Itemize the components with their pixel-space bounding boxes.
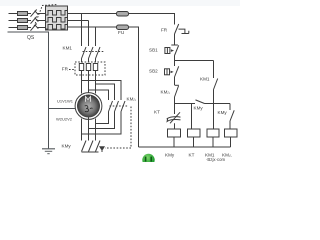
- switch QS pole 3: [31, 24, 46, 31]
- wire node line y103: [175, 103, 196, 105]
- wire KT coil branch: [191, 104, 193, 130]
- svg-text:FR: FR: [161, 28, 168, 33]
- coil KMd: [225, 129, 238, 147]
- svg-text:KM△: KM△: [127, 97, 137, 102]
- contact KMy NO right branch: [230, 104, 234, 130]
- wire delta bottoms: [96, 112, 109, 124]
- svg-text:SB1: SB1: [149, 48, 158, 53]
- contact KM1 aux NO: [214, 61, 218, 130]
- contactor KMd main contacts: [109, 101, 126, 112]
- wire delta top tap W1: [96, 84, 115, 100]
- contact KMd NC interlock: [175, 85, 180, 103]
- wire bottom control rail: [139, 146, 231, 148]
- wire motor bottom drops: [81, 119, 83, 141]
- svg-text:KMy: KMy: [194, 106, 204, 111]
- wire L2: [68, 20, 89, 22]
- wire phase drops to KM1: [81, 14, 83, 47]
- label motor M text: [85, 97, 93, 112]
- fuse FU3 L3: [18, 26, 32, 30]
- switch QS mechanical link: [34, 5, 58, 27]
- wire PE to motor frame: [49, 108, 76, 110]
- relay contact FR NC: [175, 24, 189, 45]
- KMd mechanical link dashed: [105, 106, 131, 148]
- KM1 mechanical link: [83, 51, 105, 53]
- ground symbol: [42, 149, 55, 154]
- wire fuse1 to right rail: [129, 14, 175, 25]
- wire FR to motor terminals: [81, 75, 83, 94]
- wire delta top tap U1: [82, 81, 122, 101]
- pushbutton SB1 NC: [165, 45, 179, 61]
- wire L3 phase line: [9, 27, 18, 29]
- interlock symbol: [99, 146, 105, 152]
- wire L1 phase line: [9, 13, 18, 15]
- contact KT delayed NC: [167, 104, 180, 130]
- svg-text:KT: KT: [189, 153, 195, 158]
- svg-text:W2U2V2: W2U2V2: [56, 117, 73, 122]
- fuse FU1 L1: [18, 12, 32, 16]
- svg-text:SB2: SB2: [149, 69, 158, 74]
- svg-text:·Bzjx·com: ·Bzjx·com: [206, 157, 226, 162]
- thermal relay FR heaters: [69, 62, 105, 75]
- fuse FU2 L2: [18, 19, 32, 23]
- ground wire PE: [8, 32, 49, 149]
- svg-text:FU: FU: [118, 30, 125, 36]
- fuse FU control 1: [117, 12, 129, 17]
- switch QS pole 1: [31, 10, 46, 17]
- wire y103 right part: [205, 103, 231, 105]
- svg-text:KMy: KMy: [218, 110, 228, 115]
- svg-text:KT: KT: [154, 110, 160, 115]
- wire node to KM1 aux branch: [175, 60, 214, 62]
- svg-text:KMy: KMy: [62, 144, 72, 149]
- svg-text:KMy: KMy: [165, 153, 175, 158]
- svg-text:QS: QS: [27, 35, 35, 41]
- svg-text:KM1: KM1: [63, 46, 73, 51]
- svg-text:FR: FR: [62, 66, 69, 71]
- coil KM1: [207, 129, 219, 147]
- switch QS pole 2: [31, 17, 46, 24]
- svg-text:KM△: KM△: [161, 90, 171, 95]
- wire L3 to fuse: [68, 26, 117, 28]
- wire fuse2 to left control rail: [129, 27, 139, 147]
- pushbutton SB2 NO: [165, 61, 179, 86]
- green icon: [142, 154, 154, 166]
- fuse FU control 2: [117, 25, 129, 30]
- wire L2 phase line: [9, 20, 18, 22]
- coil KMy: [168, 129, 181, 147]
- svg-text:KM1: KM1: [200, 77, 210, 82]
- breaker box: [46, 6, 68, 30]
- contactor KM1 main contacts: [82, 47, 101, 63]
- wire delta top tap V1: [89, 90, 109, 100]
- contact KMy NO horizontal: [196, 100, 205, 104]
- coil KT: [188, 129, 201, 147]
- svg-text:U1V1W1: U1V1W1: [57, 99, 74, 104]
- motor M: [75, 93, 102, 120]
- wire L1 to fuse and control rail: [68, 13, 117, 15]
- contactor KMy main contacts: [82, 141, 101, 153]
